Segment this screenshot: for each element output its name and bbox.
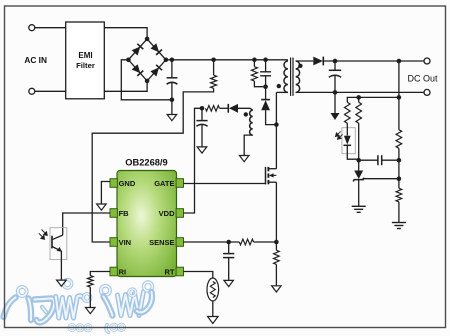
wire AC top to EMI <box>35 27 66 29</box>
svg-text:DC Out: DC Out <box>407 73 438 83</box>
svg-text:VIN: VIN <box>119 238 132 247</box>
capacitor feedback <box>359 155 402 165</box>
transformer T1 primary winding <box>276 61 288 92</box>
opto-coupler LED U2a <box>336 123 359 159</box>
node source sense junction <box>274 240 279 245</box>
ground RT resistor <box>208 317 219 324</box>
transformer T1 secondary winding <box>296 61 303 92</box>
bridge rectifier BR1 <box>126 37 168 84</box>
svg-text:SENSE: SENSE <box>149 238 174 247</box>
resistor RI <box>88 276 94 288</box>
resistor clamp <box>251 58 265 87</box>
svg-text:GND: GND <box>119 179 136 188</box>
wire AC bottom to EMI <box>35 90 66 92</box>
wire FB pin to opto collector <box>63 213 110 235</box>
ground sense resistor <box>272 286 282 292</box>
resistor VDD series <box>205 106 219 112</box>
wire GATE pin to MOSFET gate <box>184 183 266 185</box>
wire bridge negative to ground rail <box>121 60 172 100</box>
wire feedback top rail <box>347 97 399 102</box>
diode zener reference <box>353 160 364 206</box>
transistor Q1 MOSFET <box>266 167 277 185</box>
capacitor VDD <box>196 108 207 147</box>
resistor LED bias <box>356 97 362 160</box>
wire RI pin <box>90 272 110 276</box>
node DC Out bottom terminal <box>424 89 430 95</box>
ground primary (bridge) <box>167 100 177 121</box>
ground GND pin <box>97 204 107 210</box>
ground aux winding <box>239 156 249 162</box>
svg-text:RT: RT <box>165 268 175 277</box>
resistor divider lower <box>396 179 402 223</box>
node AC IN top terminal <box>29 25 35 31</box>
ground opto emitter <box>57 280 67 286</box>
wire SENSE pin <box>184 241 240 243</box>
wire zener to divider tap <box>363 178 399 180</box>
capacitor sense filter <box>223 242 234 280</box>
resistor LED series <box>345 102 351 123</box>
ground RI resistor <box>86 287 96 314</box>
node feedback rail junction <box>356 95 361 100</box>
capacitor clamp <box>260 58 271 89</box>
svg-text:VDD: VDD <box>159 209 175 218</box>
transformer T1 core <box>291 58 293 96</box>
svg-text:EMI: EMI <box>78 51 92 60</box>
resistor startup <box>211 58 217 89</box>
watermark logo <box>4 280 153 333</box>
wire drain to primary <box>275 92 277 168</box>
resistor divider upper <box>396 97 402 181</box>
IC U1 OB2268/9 controller <box>110 158 184 277</box>
node sense filter junction <box>226 240 231 245</box>
capacitor output <box>329 59 341 95</box>
ground divider <box>392 223 406 229</box>
diode output rectifier <box>313 57 424 66</box>
transistor opto-coupler U2b <box>39 228 67 280</box>
wire GND pin to ground <box>101 182 110 205</box>
svg-text:RI: RI <box>119 268 127 277</box>
ground sense cap <box>224 280 234 286</box>
ground secondary (output cap) <box>331 92 340 120</box>
wire EMI bottom output to bridge <box>104 81 147 91</box>
diode VDD rectifier <box>220 104 253 113</box>
diode clamp <box>261 87 279 127</box>
node VDD supply junction <box>200 106 205 111</box>
wire DC+ to divider column <box>397 59 402 100</box>
wire secondary top to output diode <box>296 60 314 62</box>
node LED cathode junction <box>356 158 361 163</box>
resistor current sense <box>274 242 280 286</box>
wire secondary bottom output return rail <box>296 91 424 93</box>
svg-text:OB2268/9: OB2268/9 <box>125 158 167 168</box>
wire VDD pin to aux supply <box>184 108 203 213</box>
svg-text:Filter: Filter <box>76 61 95 70</box>
EMI filter block <box>66 22 105 99</box>
transformer T1 auxiliary winding <box>244 110 253 155</box>
wire RT pin <box>184 272 213 279</box>
node AC IN bottom terminal <box>29 88 35 94</box>
svg-text:FB: FB <box>119 209 130 218</box>
wire sense resistor to source <box>254 241 277 243</box>
capacitor C1 bulk <box>167 58 178 100</box>
svg-text:GATE: GATE <box>154 179 174 188</box>
wire source to sense node <box>275 182 277 242</box>
wire EMI top output to bridge <box>104 28 147 39</box>
wire startup resistor to VIN pin <box>92 88 213 242</box>
node primary ground junction <box>170 98 175 103</box>
wire positive DC rail <box>166 59 288 61</box>
ground zener <box>352 206 366 212</box>
ground VDD cap <box>197 147 207 153</box>
resistor sense series <box>239 239 253 245</box>
svg-text:AC IN: AC IN <box>24 55 47 65</box>
resistor RT oscillator <box>207 278 219 317</box>
node DC Out top terminal <box>424 58 430 64</box>
